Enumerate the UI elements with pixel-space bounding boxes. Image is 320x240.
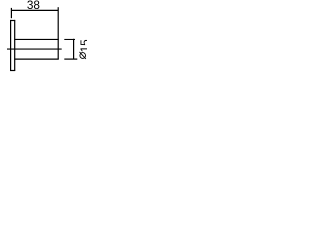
svg-text:15: 15 xyxy=(78,39,87,53)
svg-text:38: 38 xyxy=(27,0,41,12)
